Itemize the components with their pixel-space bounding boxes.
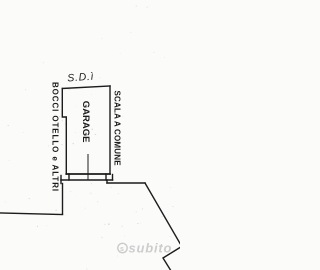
svg-text:SCALA A COMUNE: SCALA A COMUNE (112, 91, 121, 167)
svg-text:subito: subito (129, 241, 173, 256)
svg-text:BOCCI OTELLO e ALTRI: BOCCI OTELLO e ALTRI (51, 82, 60, 192)
svg-text:GARAGE: GARAGE (80, 101, 91, 143)
svg-text:S.D.ì: S.D.ì (67, 71, 95, 85)
svg-text:s: s (120, 246, 124, 253)
